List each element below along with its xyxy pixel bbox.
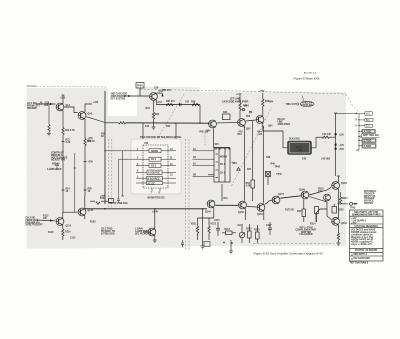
schematic shaded panel [27,87,347,249]
svg-text:R105: R105 [100,198,106,200]
svg-text:△ SEE NOTE 2: △ SEE NOTE 2 [350,253,368,256]
svg-text:1.2K: 1.2K [257,134,262,136]
wire: below R16 rail to lower stage [62,135,64,213]
wire: Q44 to Q54 [217,122,237,124]
wire: Q14 collector up to +225 [62,95,64,104]
wire: stub from feed down to inset 2 [175,124,177,140]
svg-text:+75V: +75V [339,149,345,151]
wire: stub down from bus 1 [202,209,204,246]
svg-text:R43: R43 [166,125,171,128]
node: oval feed circle [297,103,299,105]
svg-text:+12V: +12V [236,94,242,96]
wire: TP34 lead down [139,88,141,96]
svg-text:C221: C221 [238,225,244,227]
wire: rail x244 mid [243,127,245,201]
wire: stub to box A1 [359,113,365,115]
svg-text:A SOURCE: A SOURCE [148,172,161,175]
svg-text:+225: +225 [60,98,66,100]
svg-text:VOLTAGE READINGS: VOLTAGE READINGS [354,225,378,228]
svg-text:R223: R223 [246,229,252,231]
transistor Q174 [272,196,280,204]
wire: Q204 emitter down [337,225,339,233]
transistor Q44 [209,120,217,128]
wire: input bias stub down [48,104,50,125]
svg-text:TRIG CKT: TRIG CKT [286,104,297,106]
gang link switch stub [204,133,206,146]
wire: stub to box D1 [359,130,362,132]
transistor Q54 [238,119,246,127]
wire: main left rail [104,91,106,204]
wire: pin10 to switch [193,150,215,152]
transistor Q204 [332,218,340,226]
ground at x231 [229,251,233,254]
resistor R12 [48,125,50,132]
switch block S45 outline [214,148,230,182]
wire: Q44 emitter down to switch [213,128,215,147]
wire: Q204 base feed [316,209,327,222]
callout box B1 [365,118,373,121]
svg-text:R225: R225 [254,230,260,232]
variable capacitor C221 [239,232,245,238]
wire: CH2 input to Q114 [36,219,56,222]
svg-text:ADJUST R30: ADJUST R30 [51,159,66,162]
resistor R312 [339,197,341,204]
svg-text:CH 1: CH 1 [151,159,157,161]
wire: R12 to ground lead [48,132,50,134]
svg-text:B TRIG GEN: B TRIG GEN [101,233,115,235]
oval trigger label [300,101,314,107]
wire: R204 bottom [337,240,339,243]
node: rail tick R22 [61,141,64,143]
junction plus mark 1 [223,242,225,244]
svg-text:Q144: Q144 [205,211,211,214]
resistor R33 [119,122,126,124]
wire: rail to bus junction [104,208,105,209]
svg-text:+2.4V: +2.4V [152,211,159,214]
wire: stub to box B1 [359,119,365,121]
wire: emitters join output [338,189,348,204]
capacitor C308 pad [335,148,337,150]
junction dot driver bus [179,104,180,105]
junction dot bus x202 [202,208,203,209]
wire: R314 bottom [316,214,318,223]
svg-text:B SWP: B SWP [364,146,372,148]
svg-text:Q14: Q14 [66,104,71,107]
test point box with X [266,172,271,177]
junction dot bus x105b [104,208,105,209]
wire: E row underline [360,136,380,138]
dashed chassis border to right boxes [346,94,359,112]
svg-text:Q54: Q54 [246,128,251,131]
node: feeder ticks [358,120,360,146]
transistor Q184 [301,191,309,199]
svg-text:TRIG: TRIG [350,208,356,210]
svg-text:SEMICONDUCTOR TYPES: SEMICONDUCTOR TYPES [352,215,381,217]
wire: R310 leads [303,199,305,209]
power box +75 [108,199,113,203]
wire: Q194 collector up [337,176,339,182]
wire: Q134 base feed [143,231,148,233]
wire: stub from feed down to inset [142,123,144,139]
wire: R320 top [333,204,335,207]
svg-text:ADJUST 8-5: ADJUST 8-5 [304,72,317,75]
pin 11 stub [161,158,176,160]
capacitor C304 pad [335,133,337,135]
wire: R54 top [239,95,241,103]
wire: pin13 to switch [193,175,215,177]
wire: bias stub [56,166,58,170]
svg-text:PARTIAL A9 BOARD: PARTIAL A9 BOARD [355,249,378,252]
callout box C1 [365,124,372,127]
node: pin1 end tick [121,195,124,197]
wire: Q24 collector up [85,104,92,112]
wire: rail252 up stub [252,121,254,127]
svg-text:A SWP TRIG SEL: A SWP TRIG SEL [361,134,380,137]
wire: R223 leads [248,224,250,231]
resistor R37 [166,103,173,105]
wire: Q14 to Q24 base [64,107,77,113]
resistor R105 [96,202,100,204]
svg-text:C227: C227 [266,225,272,227]
ground below R12 [47,134,51,136]
node: rail tick R28 [83,189,86,191]
svg-text:R310: R310 [297,211,303,213]
wire: driver output bus [156,104,200,106]
wire: Q64 emitter right to delay line [263,123,288,148]
gate B box [149,157,161,161]
svg-text:R64: R64 [269,101,274,104]
svg-text:NORM: NORM [220,157,227,159]
wire: callout feeder vertical [358,114,360,150]
gate E box [147,176,163,180]
wire: pin1 feed left from rail [105,150,136,152]
svg-text:S45: S45 [215,143,220,146]
wire: R64 top [262,93,264,99]
wire: Q174 to Q184 [280,196,300,198]
svg-text:C34: C34 [158,101,163,104]
svg-text:R35: R35 [155,114,160,116]
wire: stub to box F1 [359,140,362,142]
wire: ext horiz feed to Q34 [123,95,149,97]
svg-text:R39: R39 [191,102,196,104]
svg-text:DL45 50Ω: DL45 50Ω [289,138,300,141]
svg-text:R34: R34 [146,107,151,110]
svg-text:+12V: +12V [339,135,345,137]
wire: CH1 input to Q14 base [36,103,56,105]
parts table box [350,210,384,261]
wire: Q114 emitter down [62,225,64,229]
transistor Q194 [332,182,340,190]
callout box G1 double [362,144,376,149]
resistor R225 box [256,232,260,239]
svg-text:R126: R126 [90,222,96,224]
svg-text:TP34: TP34 [137,85,143,88]
svg-text:Q194: Q194 [341,182,347,185]
svg-text:C43: C43 [145,125,150,128]
gate A box [149,149,161,153]
resistor R16 [62,128,64,135]
svg-text:C116: C116 [70,238,76,240]
svg-text:C45: C45 [302,158,307,161]
resistor R245 box [251,180,255,188]
wire: pin1 feed down [122,151,124,196]
junction dot emitter join [338,203,339,204]
gate F box [147,181,163,184]
svg-text:LINE: LINE [297,150,303,152]
svg-text:R314: R314 [310,223,316,226]
wire: down to cascode base [199,105,201,124]
pin 3 stub [136,164,149,166]
svg-text:1B: 1B [193,157,196,159]
svg-text:R30 50: R30 50 [52,164,60,166]
pin 12 stub [161,164,176,166]
node: input arrow 2 [50,220,54,222]
pin 6 stub [136,182,147,184]
svg-text:R37 914: R37 914 [166,100,175,103]
wire: rail x252 mid [252,127,254,180]
wire: Q134 collector to bus [154,209,156,229]
wire: R35 to ground [153,119,155,127]
svg-text:R18: R18 [88,140,93,142]
wire: bias rail x74.8 [74,153,76,212]
wire: Q34 collector with arrow up [156,92,162,94]
svg-text:R312: R312 [342,198,348,200]
resistor R26 [84,139,86,146]
node: bias diamond [55,163,58,166]
svg-text:U45: U45 [144,142,149,145]
callout box D1 double [362,129,375,133]
node: bias diamond mid [237,168,240,171]
svg-text:A TRIG: A TRIG [364,130,372,133]
gate C box [149,163,161,167]
wire: Q154 emitter down [244,208,246,220]
resistor R116 [62,229,64,236]
svg-text:2B: 2B [193,174,196,176]
capacitor C52 [249,112,252,113]
svg-text:+225: +225 [93,102,99,104]
wire: below R26 rail to lower stage [84,146,86,196]
svg-text:CASCODE AMPLIFIER: CASCODE AMPLIFIER [222,100,249,103]
svg-text:NORM: NORM [151,151,158,153]
svg-text:TP47: TP47 [276,173,282,176]
node: rail top tick [334,112,337,114]
svg-text:Figure 8-28 Sync Amplifier Sc: Figure 8-28 Sync Amplifier Schematic Dia… [253,252,322,256]
junction dot rail263 top [263,126,264,127]
svg-text:Q204: Q204 [341,222,347,225]
wire: pin12 to switch [193,164,215,166]
node: rail tick +75 [83,161,86,163]
svg-text:R48: R48 [265,100,270,103]
capacitor C227 [268,222,272,235]
svg-text:Q64: Q64 [268,125,273,128]
ground below R35 [152,127,156,129]
wire: stub x231 [230,240,232,251]
wire: output arrow [353,203,358,205]
junction dot rail244 top [244,126,245,127]
svg-text:R16 2.7K: R16 2.7K [65,130,75,132]
junction dot bus-rail [154,208,155,209]
svg-text:R211: R211 [191,224,197,226]
resistor R213 [208,226,210,233]
svg-text:R118: R118 [48,232,54,234]
pin 7 bottom stub [151,188,153,192]
wire: R245 lead lower [252,188,254,201]
gang diagonal link lower [232,108,272,187]
svg-text:R44: R44 [223,111,228,114]
white inset panel (switching block) [131,139,181,194]
junction dot cascode base [199,123,200,124]
svg-text:+75V: +75V [351,223,357,225]
switch column divider 1 [218,148,220,182]
svg-text:1A: 1A [193,148,196,151]
transistor Q114 [56,218,64,226]
resistor R217 box [226,231,233,235]
wire: R33 to T4 base [126,122,209,124]
resistor R320 box [332,207,337,214]
ground below Q134 [153,240,157,242]
wire: X box lead lower [267,177,269,186]
pin 10 stub [161,150,176,152]
wire: switch pin left [208,174,214,176]
switch top pins [216,148,229,151]
svg-text:R51: R51 [224,198,229,200]
svg-text:DELAY LINE 50Ω: DELAY LINE 50Ω [109,202,128,205]
dashed chassis border top [140,89,346,94]
wire: Q24 out to vertical rail [86,117,105,123]
resistor R35 [152,112,154,119]
capacitor C37 [180,103,182,106]
callout box F1 double [362,139,376,143]
svg-text:CH 1: CH 1 [220,164,226,166]
svg-text:TRIG: TRIG [232,163,238,165]
ground at x202 [201,246,205,249]
svg-text:R116: R116 [65,232,71,234]
wire: C221 leads [241,226,243,232]
capacitor C306 pad [335,144,337,146]
svg-text:1K: 1K [66,191,69,193]
svg-text:SWITCH: SWITCH [364,203,373,205]
pin 13 stub [162,171,176,173]
svg-text:R49: R49 [266,156,271,159]
resistor R54 [239,103,241,110]
test point TP34 box [136,83,144,89]
border corner mark top-left [27,86,108,87]
wire: mid bias stub [198,217,214,219]
svg-text:C215: C215 [214,220,220,222]
svg-text:△ P/O A9 BOARD: △ P/O A9 BOARD [350,257,370,260]
svg-text:4.7K: 4.7K [246,184,251,187]
wire: R312 leads [340,192,342,197]
wire: Q54 collector up [239,110,241,118]
wire: pin11 to switch [193,158,215,160]
svg-text:B TRIG: B TRIG [364,141,372,143]
transistor Q178 driver [324,194,331,201]
svg-text:AC DC: AC DC [148,182,156,185]
svg-text:1K: 1K [88,191,91,193]
wire: Q124 emitter to bus [84,215,86,219]
resistor R211 [196,226,198,233]
resistor R39 [192,103,199,105]
svg-text:C41: C41 [185,101,190,104]
svg-text:R47: R47 [247,168,252,171]
wire: delay line output rail [335,113,337,161]
wire: Q184 out split [309,187,331,195]
wire: Q24 emitter down to R26 [84,119,86,139]
svg-text:EXT SYSTEM: EXT SYSTEM [111,98,126,100]
resistor R223 box [248,231,252,238]
resistor R302 [322,136,329,138]
svg-text:R217: R217 [225,229,231,231]
node: +12V tick above Q194 [337,175,340,177]
resistor R44 box [223,114,231,120]
svg-text:FOLLOWER: FOLLOWER [299,234,312,236]
resistor box R235 [204,242,210,247]
node: gain set diamond [39,102,42,105]
node: feed arrow [128,95,132,97]
wire: mid feed line to cascode [105,122,119,124]
svg-text:slope + LEVEL at 0.: slope + LEVEL at 0. [351,243,373,246]
wire: Q14 emitter down [62,110,64,127]
svg-text:2A: 2A [193,162,196,165]
svg-text:R45 105: R45 105 [200,131,209,134]
svg-text:R213: R213 [211,224,217,226]
svg-text:R52: R52 [246,116,251,118]
wire: stub to box G1 [359,145,362,147]
pin 1 stub [136,150,149,152]
capacitor C41a [117,199,120,203]
pin 15 stub [163,182,177,184]
wire: Q144 emitter down [213,207,215,218]
svg-text:L45 C45: L45 C45 [322,133,332,136]
svg-text:R36 453: R36 453 [162,89,171,92]
switch column divider 2 [224,148,226,182]
pin 14 stub [163,177,177,179]
wire: pin2 feed left [119,158,137,160]
pin 5 stub [136,177,147,179]
wire: stub to box C1 [359,125,365,127]
ground below Q204 [336,243,340,245]
junction dot pin1 feed [104,150,105,151]
callout box A1 [365,112,372,115]
capacitor C215 [216,222,220,236]
pin 8 bottom stub [159,188,161,192]
svg-text:NORM TRIG DC: NORM TRIG DC [148,198,165,200]
wire: rail from switch block down [221,184,223,201]
gang diagonal link upper [158,94,184,138]
wire: +75 feed [90,200,95,202]
resistor R204 [337,233,339,240]
wire: rail lower to Q194 region [335,161,337,176]
wire: Q144 to Q154 [215,204,238,206]
transistor Q64 [256,116,264,124]
transistor Q154 [239,201,247,209]
wire: Q34 bias down [153,101,155,112]
wire: rail x263 mid [262,127,264,203]
wire: delay line out to rail [312,137,317,148]
svg-text:Figure 8 Wave 8XB: Figure 8 Wave 8XB [294,77,320,81]
delay line DL45 dark body [288,141,312,155]
svg-text:Q184: Q184 [299,189,305,192]
svg-text:Q174: Q174 [278,193,284,196]
svg-text:SYNC PICKOFF: SYNC PICKOFF [26,225,44,227]
wire: R225 leads [256,225,258,232]
svg-text:+75V: +75V [259,91,265,93]
svg-text:C36: C36 [154,88,159,90]
svg-text:R320: R320 [338,210,344,212]
wire: R213 leads [208,218,210,226]
svg-text:CH 2: CH 2 [220,173,226,175]
wire: R217 leads [222,232,226,234]
